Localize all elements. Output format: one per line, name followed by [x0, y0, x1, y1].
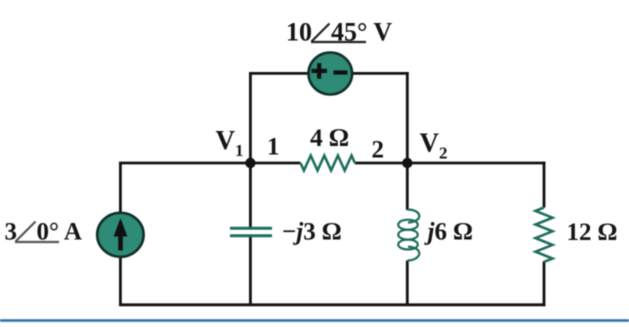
svg-text:10: 10	[286, 18, 312, 47]
wire: node 1 down to capacitor top plate	[249, 163, 252, 228]
label: 3 angle 0 deg A	[5, 219, 82, 246]
blue divider line at bottom	[0, 319, 629, 322]
label: 10 angle 45 deg V	[286, 18, 392, 47]
svg-text:2: 2	[372, 137, 385, 164]
capacitor -j3 ohm top plate	[230, 227, 272, 230]
wire: inductor down to bottom bus	[406, 261, 409, 306]
voltage source minus sign	[334, 70, 348, 74]
node V2 junction dot	[402, 158, 412, 168]
svg-text:45° V: 45° V	[331, 18, 392, 47]
resistor 12-ohm zigzag	[536, 208, 553, 262]
svg-text:0° A: 0° A	[37, 219, 82, 246]
inductor j6 ohm coil	[398, 210, 419, 261]
capacitor -j3 ohm bottom plate	[230, 234, 272, 237]
wire: capacitor bottom plate down to bottom bus	[249, 236, 252, 305]
node V1 junction dot	[245, 158, 255, 168]
voltage source plus sign	[312, 63, 328, 79]
voltage source 10/45 V circle	[309, 53, 353, 95]
wire: right vertical, above 12-ohm resistor	[543, 162, 546, 208]
svg-text:1: 1	[267, 134, 280, 161]
wire: node 2 up to top loop	[406, 72, 409, 163]
wire: node 2 down to inductor	[406, 163, 409, 210]
wire: top loop left horizontal into voltage source	[249, 72, 312, 75]
svg-text:4 Ω: 4 Ω	[310, 123, 349, 152]
wire: main horizontal bus right of 4-ohm resistor	[355, 162, 546, 165]
resistor 4-ohm zigzag	[301, 156, 355, 171]
current source arrow	[114, 218, 128, 251]
wire: main horizontal bus left of 4-ohm resistor	[119, 162, 301, 165]
wire: left vertical branch with current source	[119, 163, 122, 305]
svg-text:12 Ω: 12 Ω	[567, 219, 617, 246]
wire: bottom bus	[119, 303, 545, 306]
current source 3/0 A circle	[97, 213, 143, 257]
wire: node 1 up to top loop	[249, 72, 252, 163]
svg-text:−j3 Ω: −j3 Ω	[282, 219, 341, 246]
wire: top loop right horizontal out of voltage source	[350, 72, 409, 75]
svg-text:j6 Ω: j6 Ω	[424, 219, 473, 246]
wire: right vertical, below 12-ohm resistor	[543, 261, 546, 306]
